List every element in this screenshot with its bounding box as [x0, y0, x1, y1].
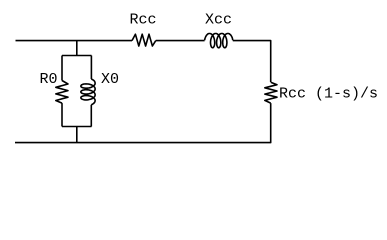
svg-text:Rcc (1-s)/s: Rcc (1-s)/s [279, 86, 378, 103]
wire bottom bar of parallel branch [62, 126, 92, 128]
inductor Xcc [205, 34, 233, 48]
wire from resistor down to bottom-right corner and bottom wire [15, 103, 271, 143]
wire stub from parallel branch to bottom wire [76, 127, 78, 143]
resistor Rcc (1-s)/s [265, 82, 277, 103]
svg-text:R0: R0 [40, 71, 58, 88]
wire from Xcc to top-right corner, down to resistor [233, 41, 271, 82]
wire stub from top wire to parallel branch [76, 41, 78, 56]
wire left branch upper [61, 56, 63, 81]
svg-text:Xcc: Xcc [205, 12, 232, 29]
svg-text:X0: X0 [101, 71, 119, 88]
inductor X0 [81, 79, 95, 105]
wire between Rcc and Xcc [156, 40, 205, 42]
wire top bar of parallel branch [62, 55, 92, 57]
resistor R0 [56, 81, 68, 104]
svg-text:Rcc: Rcc [130, 12, 157, 29]
resistor Rcc [132, 34, 156, 46]
wire top left segment [16, 40, 133, 42]
wire right branch lower [90, 105, 92, 127]
wire left branch lower [61, 103, 63, 126]
wire right branch upper [90, 56, 92, 80]
